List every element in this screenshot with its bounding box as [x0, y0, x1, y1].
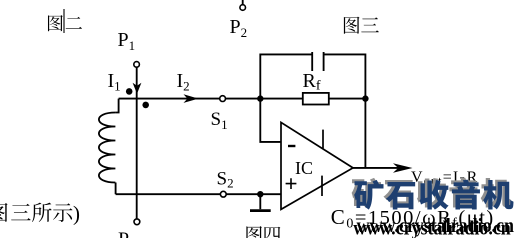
op-amp minus sign [288, 145, 295, 147]
switch terminal S1 circle [220, 96, 226, 102]
figure label 图二 [48, 15, 82, 31]
op-amp U1 triangle [281, 122, 353, 209]
svg-text:P2: P2 [230, 16, 248, 40]
wire: main horizontal (I2) from coil corner to S1 [119, 98, 220, 100]
inductor L (coil) [99, 113, 116, 183]
text fragment 图三所示) bottom left [0, 201, 80, 225]
node dot left of P1 line [126, 88, 133, 95]
wire: output [353, 167, 404, 169]
wire: ground stub [259, 194, 261, 209]
current arrow I2 [184, 94, 199, 103]
artifact vertical line in 图二 [63, 9, 65, 33]
ground bar [250, 209, 271, 212]
svg-text:S2: S2 [217, 168, 234, 190]
node C dot (ground node) [257, 191, 263, 197]
node A dot [257, 95, 263, 101]
figure label 图四 (clipped at bottom) [246, 226, 280, 240]
capacitor C0 left plate [311, 52, 313, 71]
node dot right of P1 line [142, 102, 149, 109]
wire: P2 stub [242, 0, 244, 5]
svg-text:IC: IC [295, 158, 313, 178]
wire: bottom horizontal to S2 [116, 193, 221, 195]
capacitor C0 right plate [323, 52, 325, 71]
wire: coil top link [115, 99, 118, 113]
output arrow [393, 163, 413, 173]
terminal P1 circle [134, 62, 140, 68]
svg-text:P1: P1 [118, 29, 136, 53]
svg-text:S1: S1 [211, 109, 228, 132]
resistor Rf box [303, 93, 329, 105]
op-amp power stub top [322, 130, 324, 149]
svg-text:www.crystalradio.cn: www.crystalradio.cn [357, 215, 515, 237]
wire: P1/P3 vertical line [136, 67, 138, 219]
wire: node B down to output [364, 99, 366, 168]
watermark big text 矿石收音机 [354, 180, 513, 210]
svg-text:): ) [73, 201, 80, 225]
figure label 图三 [344, 17, 379, 34]
svg-text:P3: P3 [118, 229, 136, 239]
op-amp power stub bottom [321, 176, 323, 196]
svg-text:Rf: Rf [303, 70, 321, 94]
wire: coil bottom link [115, 183, 117, 195]
node B dot [362, 95, 368, 101]
current arrow I1 (down P1 line) [133, 83, 142, 94]
svg-text:I2: I2 [177, 70, 190, 94]
wire: main horizontal S1 to node A to node B [226, 98, 366, 100]
svg-text:I1: I1 [108, 70, 121, 94]
terminal P3 circle [134, 219, 140, 225]
terminal P2 circle [240, 5, 246, 11]
switch terminal S2 circle [220, 191, 226, 197]
wire: S2 to node C to op-amp + input [226, 193, 281, 195]
wire: node A down to inverting input [260, 99, 281, 142]
wire: feedback top loop right side [324, 54, 366, 98]
wire: feedback top loop left side [260, 54, 312, 98]
watermark big text shadow [352, 178, 511, 208]
op-amp plus sign [286, 178, 297, 189]
